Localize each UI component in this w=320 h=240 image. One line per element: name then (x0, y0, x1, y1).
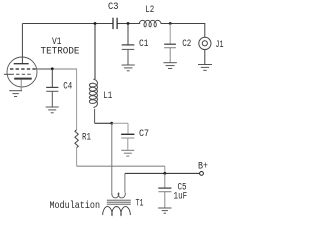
svg-text:Modulation: Modulation (50, 200, 101, 212)
svg-text:C1: C1 (139, 38, 149, 50)
svg-text:C4: C4 (63, 81, 72, 93)
svg-text:1uF: 1uF (174, 190, 188, 202)
svg-text:L2: L2 (145, 4, 154, 16)
svg-text:J1: J1 (216, 39, 224, 51)
svg-text:L1: L1 (103, 90, 112, 102)
svg-text:C2: C2 (182, 38, 191, 50)
svg-text:TETRODE: TETRODE (41, 45, 80, 57)
svg-text:C7: C7 (139, 128, 149, 140)
svg-text:R1: R1 (82, 132, 91, 144)
svg-text:C3: C3 (108, 1, 119, 13)
svg-text:B+: B+ (198, 161, 208, 173)
svg-text:T1: T1 (136, 198, 144, 210)
